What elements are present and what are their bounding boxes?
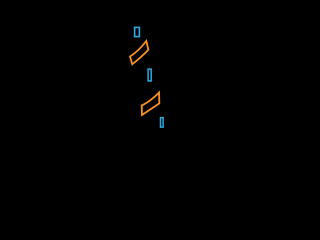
blue pad 3 [161,118,164,127]
orange parallelogram 2 [142,93,160,116]
orange parallelogram 1 [130,41,148,64]
blue pad 2 [148,69,151,81]
blue pad 1 [135,27,140,36]
